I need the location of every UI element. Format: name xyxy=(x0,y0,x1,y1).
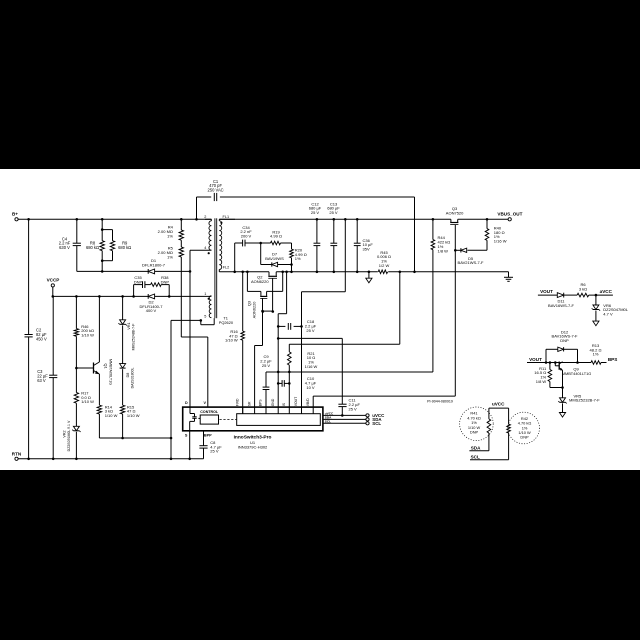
wire R6-aVCC xyxy=(589,294,613,296)
wire uVCC stub xyxy=(323,414,366,416)
svg-text:10 V: 10 V xyxy=(306,385,315,390)
wire C10 rail xyxy=(278,382,289,384)
wire Q2 gate xyxy=(272,278,274,311)
node clamp rail C4 xyxy=(101,270,104,273)
svg-text:1%: 1% xyxy=(295,256,301,261)
capacitor C4 xyxy=(59,236,81,250)
capacitor C12 xyxy=(309,201,322,245)
node VCCP/VR1 xyxy=(121,295,124,298)
wire C12 line xyxy=(316,219,318,271)
bottom letterbox bar xyxy=(0,470,640,640)
wire R8 stub xyxy=(102,230,112,241)
transistor Q1 xyxy=(94,359,113,385)
wire C1 down to GND bus xyxy=(414,197,416,272)
wire VOUT sense xyxy=(302,219,346,413)
pin label GND xyxy=(271,398,275,406)
wire C35 branch left xyxy=(134,285,143,297)
wire IS top rail xyxy=(289,343,400,345)
wire gnd drop from bus xyxy=(278,272,286,314)
wire R42-SCL xyxy=(470,433,509,460)
wire D11-R6 xyxy=(564,294,577,296)
wire T1 FL1 stub xyxy=(219,215,235,221)
pin label D xyxy=(185,401,188,405)
svg-text:63 V: 63 V xyxy=(37,378,46,383)
node bus/R40 xyxy=(486,218,489,221)
wire R44 bottom lead xyxy=(432,250,434,372)
wire SR line xyxy=(254,346,256,414)
svg-text:aVCC: aVCC xyxy=(600,289,613,294)
terminal VCCP xyxy=(47,278,60,287)
wire R4-R5 xyxy=(180,240,182,247)
wire R15 bottom lead xyxy=(122,414,124,438)
diode D12 xyxy=(552,329,578,351)
svg-text:DA2S31800L: DA2S31800L xyxy=(131,368,135,389)
svg-text:FL1: FL1 xyxy=(223,215,230,219)
node GND/IS xyxy=(399,271,402,274)
wire Q3 gate xyxy=(262,298,264,311)
svg-text:1/2 W: 1/2 W xyxy=(379,263,390,268)
resistor R14 xyxy=(97,404,117,418)
resistor R42 xyxy=(507,416,532,440)
svg-text:25 V: 25 V xyxy=(306,328,315,333)
wire SR jog xyxy=(255,345,263,347)
node GND/C13 xyxy=(333,271,336,274)
pin label V xyxy=(203,401,206,405)
label SDA net xyxy=(471,446,481,451)
wire C11 upper lead xyxy=(341,338,343,404)
node VCCP/C35 xyxy=(132,295,135,298)
wire VCCP bus xyxy=(53,295,212,297)
resistor R46 xyxy=(74,324,94,338)
wire Q1 collector xyxy=(98,296,100,362)
node bus/C12 xyxy=(316,218,319,221)
dnp circle R42 xyxy=(508,412,540,444)
svg-text:SCL: SCL xyxy=(471,454,480,459)
wire uVCC rail xyxy=(489,407,509,409)
wire R8R9 to clamp rail xyxy=(101,261,103,272)
node RTN/drop171 xyxy=(170,458,173,461)
polarity dot T1 secondary xyxy=(220,222,222,224)
ground aVCC xyxy=(593,321,599,326)
wire drop171 xyxy=(170,320,172,458)
resistor R15 xyxy=(120,404,139,418)
ground VR5 xyxy=(559,413,565,418)
resistor R20 xyxy=(290,247,307,261)
wire C36 line xyxy=(356,219,358,271)
node clamp/D7 left xyxy=(259,242,262,245)
IC U1 outline xyxy=(183,407,323,431)
svg-text:AON7520: AON7520 xyxy=(446,211,464,216)
wire 371 rail xyxy=(266,371,433,373)
capacitor C2 xyxy=(25,328,48,342)
svg-text:25 V: 25 V xyxy=(349,406,358,411)
zener VR5 xyxy=(558,393,600,403)
wire R20 bottom lead xyxy=(291,258,293,272)
wire D8-R15 xyxy=(122,369,124,405)
svg-text:BPS: BPS xyxy=(608,357,617,362)
svg-text:AON6220: AON6220 xyxy=(252,302,256,319)
node C2/RTN xyxy=(27,458,30,461)
svg-text:uVCC: uVCC xyxy=(492,401,505,406)
node bus/C13 xyxy=(333,218,336,221)
svg-text:INN3379C-H302: INN3379C-H302 xyxy=(238,445,268,450)
node VCCP/R38 xyxy=(168,295,171,298)
wire Q3 drain loop xyxy=(247,272,282,292)
wire R44 top lead xyxy=(432,219,434,239)
dnp circle R41 xyxy=(460,407,494,441)
pin label FWD xyxy=(235,398,239,406)
svg-text:25 V: 25 V xyxy=(210,449,219,454)
wire Q9 emitter xyxy=(562,370,564,398)
diode D1 xyxy=(142,258,166,274)
label SCL net xyxy=(471,454,480,459)
svg-text:RTN: RTN xyxy=(12,451,22,456)
wire D7 right lead xyxy=(278,264,292,266)
terminal SDA xyxy=(366,417,382,422)
wire C8 bottom lead xyxy=(203,448,205,459)
svg-text:Q3: Q3 xyxy=(247,300,252,306)
capacitor C18 xyxy=(288,319,316,333)
wire clamp rail right xyxy=(155,270,190,272)
node GND/q2src xyxy=(285,271,288,274)
svg-text:1%: 1% xyxy=(593,352,599,357)
wire T1 pin4 lead xyxy=(190,246,211,250)
wire clamp top left xyxy=(235,242,243,244)
svg-text:DNP: DNP xyxy=(470,430,479,435)
wire T1 pin2 stub xyxy=(204,215,211,221)
svg-text:VR1: VR1 xyxy=(127,322,131,329)
transformer T1 core xyxy=(215,218,217,318)
wire S pin xyxy=(189,431,191,459)
wire R38 branch right xyxy=(161,285,169,297)
node B+/R8R9 xyxy=(101,218,104,221)
wire R46 top lead xyxy=(75,296,77,328)
node B+/C4 xyxy=(76,218,79,221)
svg-text:5: 5 xyxy=(204,314,206,318)
node 311/bps xyxy=(262,310,265,313)
capacitor C35 xyxy=(134,275,145,288)
pin label IS xyxy=(282,402,286,406)
wire BPS line lower xyxy=(265,390,267,414)
node D1/drain line xyxy=(189,270,192,273)
wire SCL stub xyxy=(323,422,366,424)
wire C3 line lower xyxy=(52,378,54,459)
terminal B+ xyxy=(12,212,18,221)
resistor R6 xyxy=(577,282,589,297)
node B+/C2 xyxy=(27,218,30,221)
svg-text:VOUT: VOUT xyxy=(540,289,553,294)
svg-text:1/10 W: 1/10 W xyxy=(81,333,94,338)
resistor R5 xyxy=(158,246,184,260)
transistor Q3 hiside xyxy=(446,206,464,225)
svg-text:D8: D8 xyxy=(126,373,130,378)
capacitor C10 xyxy=(282,376,317,390)
transistor Q2 xyxy=(251,272,277,284)
pin label VOUT xyxy=(294,397,298,406)
wire VCCP drop xyxy=(52,287,54,296)
node VCCP/Q1 xyxy=(98,295,101,298)
wire VR6 bottom lead xyxy=(595,311,597,322)
wire FWD to pin xyxy=(242,340,244,414)
diode D8 xyxy=(120,364,135,389)
node R15/438 rail xyxy=(121,437,124,440)
svg-text:AON6220: AON6220 xyxy=(251,279,269,284)
node bus/C36 xyxy=(356,218,359,221)
svg-text:DZ2S091M0L 9.1 V: DZ2S091M0L 9.1 V xyxy=(67,420,71,451)
wire R20 top lead xyxy=(291,243,293,249)
wire C1 branch up xyxy=(196,197,198,219)
resistor R44 xyxy=(431,235,450,253)
node gnd/c10 xyxy=(277,382,280,385)
node VCCP/C3 xyxy=(52,295,55,298)
polarity dot T1 bias xyxy=(208,298,210,300)
capacitor C9 xyxy=(260,354,272,389)
resistor R40 xyxy=(485,225,506,243)
wire VB stub xyxy=(312,396,314,414)
svg-text:DNP: DNP xyxy=(134,279,143,284)
node VR2/RTN xyxy=(75,458,78,461)
wire R17 top lead xyxy=(75,368,77,393)
svg-text:SDA: SDA xyxy=(471,446,481,451)
wire drain line xyxy=(189,250,191,407)
svg-text:B+: B+ xyxy=(12,212,18,217)
wire IS sense vert xyxy=(399,272,401,344)
wire R5 to V jog xyxy=(181,257,208,407)
wire R40 leads xyxy=(486,219,488,250)
wire clamp top mid xyxy=(245,242,270,244)
wire Q1 base lead xyxy=(76,367,93,369)
svg-text:1/16 W: 1/16 W xyxy=(494,239,507,244)
wire R8R9 bottom bracket xyxy=(102,251,112,261)
wire R41 top lead xyxy=(488,408,490,419)
resistor R13 xyxy=(590,343,602,364)
svg-text:FWD: FWD xyxy=(235,398,239,406)
svg-text:PQ2620: PQ2620 xyxy=(219,320,234,325)
svg-text:GND: GND xyxy=(271,398,275,406)
svg-text:D: D xyxy=(185,401,188,405)
pin label VB xyxy=(306,398,310,406)
transformer T1 primary winding xyxy=(209,221,211,250)
svg-text:400 V: 400 V xyxy=(146,308,157,313)
wire C35-R38 xyxy=(145,284,151,286)
svg-text:1/8 W: 1/8 W xyxy=(536,379,547,384)
IC U1 inner box xyxy=(237,414,321,426)
label U1 xyxy=(234,435,272,450)
svg-text:DNP: DNP xyxy=(560,338,569,343)
svg-text:BPP: BPP xyxy=(204,433,212,437)
svg-text:680 kΩ: 680 kΩ xyxy=(86,245,99,250)
capacitor C34 xyxy=(240,225,252,247)
wire C2 line upper xyxy=(28,219,30,334)
svg-text:1/10 W: 1/10 W xyxy=(225,338,238,343)
node R20/D7 xyxy=(290,263,293,266)
node GND/fwd xyxy=(241,271,244,274)
zener VR6 xyxy=(592,303,629,317)
svg-text:680 kΩ: 680 kΩ xyxy=(118,245,131,250)
ground chassis xyxy=(504,272,513,282)
svg-text:SR: SR xyxy=(247,401,251,406)
svg-text:MMBT4401LT1G: MMBT4401LT1G xyxy=(562,371,592,376)
capacitor C13 xyxy=(327,201,340,245)
node d12 right xyxy=(576,361,579,364)
node gates junction xyxy=(261,310,264,313)
wire gate tie rail xyxy=(263,310,273,312)
capacitor C1 xyxy=(208,179,224,201)
top letterbox bar xyxy=(0,0,640,169)
wire R17-VR2 xyxy=(75,403,77,426)
transformer T1 secondary winding xyxy=(219,221,221,270)
wire Q3 gate line xyxy=(454,225,456,397)
svg-text:DNP: DNP xyxy=(520,435,529,440)
svg-text:BAV21WS-7-F: BAV21WS-7-F xyxy=(458,260,484,265)
terminal SCL xyxy=(366,421,381,426)
svg-text:Q1: Q1 xyxy=(104,363,109,369)
node q3gate/d5 xyxy=(454,249,457,252)
wire BPP pin xyxy=(203,431,205,446)
wire gates chain xyxy=(262,311,264,345)
pin label SR xyxy=(247,401,251,406)
resistor R41 xyxy=(467,411,490,435)
svg-text:25 V: 25 V xyxy=(329,210,338,215)
node is/371 xyxy=(288,371,291,374)
svg-text:4.99 Ω: 4.99 Ω xyxy=(270,234,282,239)
svg-text:MMBTA06LT1G: MMBTA06LT1G xyxy=(109,359,113,385)
svg-text:BAV16WS-7-F: BAV16WS-7-F xyxy=(548,303,574,308)
wire D12 loop xyxy=(546,349,578,362)
wire secondary bus xyxy=(219,218,508,220)
wire R41-SDA xyxy=(469,433,489,451)
svg-text:CONTROL: CONTROL xyxy=(200,410,219,414)
wire C1 horizontal xyxy=(197,196,415,198)
wire R11 leads xyxy=(550,363,563,388)
svg-text:VOUT: VOUT xyxy=(294,397,298,406)
label aVCC xyxy=(600,289,613,294)
node GND/q3drain-left xyxy=(246,271,249,274)
wire IS line xyxy=(288,372,290,414)
node GND/q3drain-right xyxy=(281,271,284,274)
svg-text:VB/D: VB/D xyxy=(306,398,310,406)
wire VR1-D8 xyxy=(122,325,124,363)
label PI number xyxy=(427,399,453,403)
ground secondary xyxy=(366,272,372,283)
svg-text:VBUS_OUT: VBUS_OUT xyxy=(497,212,522,217)
wire clamp left vert xyxy=(234,243,236,272)
node aVCC/VR6 xyxy=(595,294,598,297)
wire RTN bus xyxy=(18,458,203,460)
svg-text:FL2: FL2 xyxy=(223,266,230,270)
wire GND pin line xyxy=(277,314,279,414)
svg-text:35V: 35V xyxy=(363,247,370,252)
node GND/clamp left xyxy=(233,271,236,274)
resistor R19 xyxy=(270,229,282,245)
wire Q1 emitter xyxy=(98,374,100,405)
capacitor C11 xyxy=(338,398,360,412)
wire VR5 bottom lead xyxy=(562,403,564,412)
svg-text:S: S xyxy=(185,433,188,437)
wire BPS line upper xyxy=(265,372,267,387)
wire VR6 top lead xyxy=(595,295,597,305)
node 438/RTN drop xyxy=(170,437,173,440)
svg-text:3 kΩ: 3 kΩ xyxy=(579,286,587,291)
node B+/C1 xyxy=(195,218,198,221)
zener VR1 xyxy=(118,320,135,351)
pin label BPP xyxy=(204,433,212,437)
diode D11 xyxy=(548,293,574,308)
resistor R38 xyxy=(151,275,170,286)
svg-text:1/8 W: 1/8 W xyxy=(438,248,449,253)
terminal VBUS_OUT xyxy=(497,212,522,221)
capacitor C8 xyxy=(199,440,222,454)
label T1 xyxy=(219,315,234,325)
node r11/q9e xyxy=(561,386,564,389)
node gnd/c18 xyxy=(277,325,280,328)
wire C13 line xyxy=(333,219,335,271)
terminal RTN xyxy=(12,451,22,460)
label VOUT upper xyxy=(540,289,553,294)
svg-text:1%: 1% xyxy=(167,233,173,238)
svg-text:1/16 W: 1/16 W xyxy=(305,364,318,369)
node R8R9 bottom xyxy=(101,259,104,262)
diode D5 xyxy=(458,248,484,265)
node R8R9 top xyxy=(101,228,104,231)
svg-text:4.7 V: 4.7 V xyxy=(603,312,613,317)
svg-text:1: 1 xyxy=(204,292,206,296)
node C3/RTN xyxy=(52,458,55,461)
node bus/VOUT sense xyxy=(344,218,347,221)
resistor R45 xyxy=(377,250,391,274)
node uvcc/C11 xyxy=(341,414,344,417)
wire clamp rail left xyxy=(77,270,148,272)
diode D2 xyxy=(140,294,164,313)
node Q1 base xyxy=(75,367,78,370)
svg-text:450 V: 450 V xyxy=(36,336,47,341)
svg-text:VCCP: VCCP xyxy=(47,278,60,283)
wire C18 rail xyxy=(278,325,301,327)
wire T1 FL2 stub xyxy=(219,266,229,272)
pin stub FWD xyxy=(242,407,244,414)
svg-text:1%: 1% xyxy=(167,254,173,259)
IC U1 internal mosfet xyxy=(190,407,201,431)
wire C4 upper lead xyxy=(76,219,78,243)
svg-text:1/10 W: 1/10 W xyxy=(127,413,140,418)
label uVCC net xyxy=(492,401,505,406)
resistor R21 xyxy=(288,344,318,372)
IC U1 dashed link xyxy=(220,418,237,420)
wire VOUT-BPS rail xyxy=(527,362,607,364)
label VOUT lower xyxy=(529,357,542,362)
node B+/R4 xyxy=(180,218,183,221)
node gnd/c11rail xyxy=(277,337,280,340)
node 311/gate xyxy=(272,310,275,313)
pin label S xyxy=(185,433,188,437)
polarity dot T1 primary xyxy=(208,252,210,254)
resistor R4 xyxy=(158,225,184,241)
transformer T1 bias winding xyxy=(204,292,211,319)
wire B+ bus xyxy=(18,218,211,220)
node RTN/S pin xyxy=(188,458,191,461)
mini label uVCC xyxy=(325,412,334,416)
svg-text:VOUT: VOUT xyxy=(529,357,542,362)
node c18/vout xyxy=(300,325,303,328)
wire D5 right lead xyxy=(467,249,487,251)
svg-text:MMSZ5232B-7-F: MMSZ5232B-7-F xyxy=(569,398,600,403)
svg-text:25 V: 25 V xyxy=(311,210,320,215)
diode D7 xyxy=(265,252,284,267)
wire D5 left lead xyxy=(455,249,461,251)
node r11 top xyxy=(549,361,552,364)
node bus/R44 xyxy=(432,218,435,221)
svg-text:BAV19WS: BAV19WS xyxy=(265,256,284,261)
